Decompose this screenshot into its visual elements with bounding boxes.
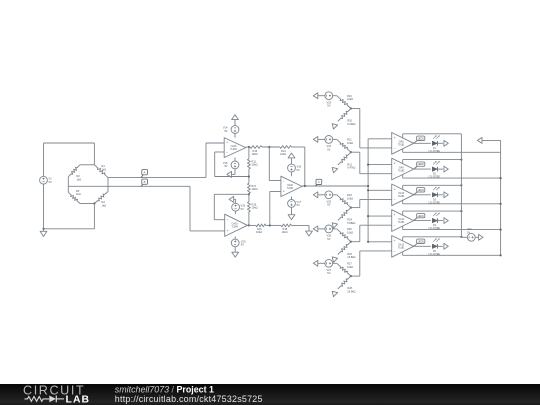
svg-text:+: + [226, 141, 228, 145]
svg-text:OA8: OA8 [399, 141, 404, 144]
svg-text:1kΩ: 1kΩ [102, 203, 107, 207]
svg-text:10kΩ: 10kΩ [280, 152, 286, 156]
svg-text:−: − [394, 250, 396, 254]
svg-text:5V: 5V [327, 203, 330, 207]
svg-text:10kΩ: 10kΩ [252, 152, 258, 156]
svg-text:LED5: LED5 [418, 241, 425, 244]
svg-text:OA11: OA11 [398, 218, 404, 221]
svg-text:10kΩ: 10kΩ [252, 206, 258, 210]
svg-text:10kΩ: 10kΩ [252, 163, 258, 167]
svg-text:LED4: LED4 [418, 215, 425, 218]
svg-text:1kΩ: 1kΩ [77, 177, 82, 181]
svg-text:5V: 5V [49, 180, 52, 184]
svg-text:1kΩ: 1kΩ [102, 167, 107, 171]
svg-text:5V: 5V [327, 104, 330, 108]
svg-text:6.47kΩ: 6.47kΩ [347, 166, 355, 170]
svg-text:LED2: LED2 [418, 163, 425, 166]
svg-text:OA10: OA10 [398, 192, 405, 195]
svg-text:+: + [394, 239, 396, 243]
svg-text:+: + [394, 136, 396, 140]
svg-text:TL084: TL084 [231, 227, 238, 229]
svg-text:LED1: LED1 [418, 138, 425, 141]
svg-text:OA15: OA15 [231, 145, 238, 148]
svg-text:TL081: TL081 [287, 188, 294, 190]
svg-text:+: + [394, 213, 396, 217]
svg-text:26.9kΩ: 26.9kΩ [347, 290, 355, 294]
svg-text:+: + [283, 190, 285, 194]
svg-text:−: − [283, 179, 285, 183]
svg-text:13.8kΩ: 13.8kΩ [347, 255, 355, 259]
svg-text:10kΩ: 10kΩ [252, 187, 258, 191]
svg-text:OA20: OA20 [287, 184, 294, 187]
svg-text:5V: 5V [467, 231, 470, 235]
svg-text:5V: 5V [327, 271, 330, 275]
svg-text:5V: 5V [241, 243, 244, 247]
svg-text:−: − [394, 147, 396, 151]
svg-text:TL081: TL081 [398, 145, 405, 147]
svg-text:5V: 5V [224, 164, 227, 168]
svg-text:LTL-307EE: LTL-307EE [429, 254, 441, 256]
svg-text:+: + [227, 229, 229, 233]
svg-text:5V: 5V [327, 147, 330, 151]
svg-text:TL081: TL081 [398, 196, 405, 198]
svg-text:LTL-307EE: LTL-307EE [429, 151, 441, 153]
svg-text:LTL-307EE: LTL-307EE [429, 177, 441, 179]
svg-text:C: C [318, 180, 320, 184]
svg-text:−: − [394, 198, 396, 202]
svg-text:B: B [144, 180, 146, 184]
svg-text:−: − [394, 173, 396, 177]
svg-text:OA19: OA19 [232, 223, 239, 226]
svg-text:−: − [394, 224, 396, 228]
svg-text:5.88kΩ: 5.88kΩ [347, 221, 355, 225]
svg-text:OA12: OA12 [398, 244, 405, 247]
svg-text:TL081: TL081 [398, 222, 405, 224]
svg-text:10kΩ: 10kΩ [282, 230, 288, 234]
svg-text:10kΩ: 10kΩ [347, 265, 353, 269]
svg-text:5V: 5V [327, 237, 330, 241]
svg-text:10kΩ: 10kΩ [347, 97, 353, 101]
svg-text:10kΩ: 10kΩ [347, 230, 353, 234]
svg-text:http://circuitlab.com/ckt47532: http://circuitlab.com/ckt47532s5725 [115, 394, 263, 404]
svg-text:5V: 5V [224, 129, 227, 133]
svg-text:10kΩ: 10kΩ [347, 141, 353, 145]
svg-text:TL081: TL081 [398, 248, 405, 250]
svg-text:TL084: TL084 [230, 149, 237, 151]
svg-text:LAB: LAB [66, 395, 91, 405]
svg-text:6.09kΩ: 6.09kΩ [347, 122, 355, 126]
svg-text:TL081: TL081 [398, 171, 405, 173]
svg-text:LTL-307EE: LTL-307EE [429, 228, 441, 230]
svg-text:+: + [394, 187, 396, 191]
svg-text:10kΩ: 10kΩ [256, 230, 262, 234]
svg-text:+: + [394, 162, 396, 166]
svg-text:A: A [144, 171, 146, 175]
svg-text:1kΩ: 1kΩ [76, 192, 81, 196]
svg-text:5V: 5V [297, 168, 300, 172]
svg-text:5V: 5V [297, 203, 300, 207]
svg-text:−: − [226, 151, 228, 155]
svg-text:10kΩ: 10kΩ [347, 196, 353, 200]
svg-text:LTL-307EE: LTL-307EE [429, 202, 441, 204]
svg-text:LED3: LED3 [418, 189, 425, 192]
svg-text:5V: 5V [241, 207, 244, 211]
svg-text:−: − [227, 218, 229, 222]
svg-text:OA9: OA9 [399, 167, 404, 170]
